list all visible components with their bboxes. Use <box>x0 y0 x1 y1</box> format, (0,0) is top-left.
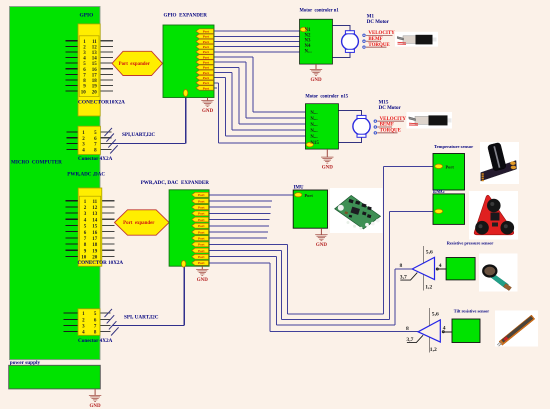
svg-text:17: 17 <box>92 73 98 78</box>
svg-text:PWR,ADC, DAC EXPANDER: PWR,ADC, DAC EXPANDER <box>141 180 210 186</box>
svg-text:Port: Port <box>305 193 314 198</box>
svg-text:Port: Port <box>198 236 205 240</box>
svg-text:15: 15 <box>92 225 98 230</box>
svg-text:16: 16 <box>92 68 98 73</box>
svg-text:18: 18 <box>92 243 98 248</box>
svg-text:15: 15 <box>92 62 98 67</box>
svg-text:N2: N2 <box>305 33 312 38</box>
svg-text:3,7: 3,7 <box>400 274 407 280</box>
svg-text:GPIO: GPIO <box>80 12 94 18</box>
svg-text:14: 14 <box>92 57 98 62</box>
svg-text:Port: Port <box>203 71 210 75</box>
svg-text:Port: Port <box>198 249 205 253</box>
svg-text:1,2: 1,2 <box>430 347 437 353</box>
svg-text:Conector 4X2A: Conector 4X2A <box>78 156 113 162</box>
svg-text:Port: Port <box>198 199 205 203</box>
svg-text:Port: Port <box>203 81 210 85</box>
svg-text:GND: GND <box>316 243 328 248</box>
svg-text:10: 10 <box>81 90 87 95</box>
svg-text:Temperature sensor: Temperature sensor <box>434 144 473 149</box>
svg-text:Port: Port <box>203 40 210 44</box>
svg-text:CONECTOR 10X2A: CONECTOR 10X2A <box>78 260 124 266</box>
svg-text:DC Motor: DC Motor <box>379 106 402 111</box>
svg-text:CONECTOR10X2A: CONECTOR10X2A <box>78 100 125 106</box>
svg-text:N...: N... <box>310 129 317 134</box>
svg-text:N15: N15 <box>310 141 319 146</box>
svg-text:19: 19 <box>92 249 98 254</box>
svg-text:Port: Port <box>203 60 210 64</box>
svg-text:11: 11 <box>92 200 97 205</box>
svg-text:SPI,UART,I2C: SPI,UART,I2C <box>122 132 155 138</box>
svg-text:Port: Port <box>203 30 210 34</box>
svg-text:N1: N1 <box>305 28 312 33</box>
svg-text:13: 13 <box>92 212 98 217</box>
svg-text:Port: Port <box>198 261 205 265</box>
svg-text:5,6: 5,6 <box>426 250 433 256</box>
svg-text:Tilt resistive sensor: Tilt resistive sensor <box>454 308 490 313</box>
svg-text:MICRO COMPUTER: MICRO COMPUTER <box>11 160 62 166</box>
svg-text:Port: Port <box>198 224 205 228</box>
svg-text:20: 20 <box>92 90 98 95</box>
svg-text:Port: Port <box>203 45 210 49</box>
svg-text:12: 12 <box>92 206 98 211</box>
svg-text:Port: Port <box>203 76 210 80</box>
svg-text:N...: N... <box>310 135 317 140</box>
svg-text:1,2: 1,2 <box>425 285 432 291</box>
svg-text:N...: N... <box>310 117 317 122</box>
svg-text:DC Motor: DC Motor <box>367 20 390 25</box>
svg-text:IMU: IMU <box>294 185 305 190</box>
svg-text:19: 19 <box>92 85 98 90</box>
svg-text:GND: GND <box>90 404 102 409</box>
svg-text:N3: N3 <box>305 39 312 44</box>
svg-text:EMG: EMG <box>433 190 445 195</box>
svg-text:GND: GND <box>322 166 334 171</box>
svg-text:Port: Port <box>446 164 455 169</box>
svg-text:Port: Port <box>203 86 210 90</box>
svg-text:14: 14 <box>92 218 98 223</box>
svg-text:N...: N... <box>310 123 317 128</box>
svg-text:Port: Port <box>198 218 205 222</box>
svg-text:Port: Port <box>203 35 210 39</box>
svg-text:N4: N4 <box>305 44 312 49</box>
svg-text:GND: GND <box>197 278 209 283</box>
svg-text:11: 11 <box>92 40 97 45</box>
svg-text:4: 4 <box>439 263 442 269</box>
svg-text:12: 12 <box>92 45 98 50</box>
svg-text:GND: GND <box>202 109 214 114</box>
svg-text:SPI, UART,I2C: SPI, UART,I2C <box>124 315 159 321</box>
svg-text:N...: N... <box>305 49 312 54</box>
svg-text:17: 17 <box>92 237 98 242</box>
svg-text:13: 13 <box>92 51 98 56</box>
svg-text:Port: Port <box>198 193 205 197</box>
svg-text:Port: Port <box>203 66 210 70</box>
svg-text:16: 16 <box>92 231 98 236</box>
svg-text:Port: Port <box>198 212 205 216</box>
svg-text:M15: M15 <box>379 100 389 105</box>
svg-text:PWR,ADC ,DAC: PWR,ADC ,DAC <box>67 172 105 178</box>
svg-text:Resistive pressure sensor: Resistive pressure sensor <box>447 241 494 246</box>
svg-text:Motor controler n15: Motor controler n15 <box>305 94 348 99</box>
svg-text:5,6: 5,6 <box>432 312 439 318</box>
svg-text:GND: GND <box>310 78 322 83</box>
svg-text:M1: M1 <box>367 15 375 20</box>
svg-text:N...: N... <box>310 111 317 116</box>
svg-text:Conector 4X2A: Conector 4X2A <box>78 338 113 344</box>
svg-text:Port expander: Port expander <box>123 221 155 226</box>
svg-text:Motor controler n1: Motor controler n1 <box>300 8 340 13</box>
svg-text:Port: Port <box>198 255 205 259</box>
svg-text:GPIO EXPANDER: GPIO EXPANDER <box>164 12 208 18</box>
svg-text:Port: Port <box>198 243 205 247</box>
svg-text:Port: Port <box>198 206 205 210</box>
svg-text:18: 18 <box>92 79 98 84</box>
svg-text:Port expander: Port expander <box>119 62 151 67</box>
svg-text:8: 8 <box>400 263 403 269</box>
svg-text:Port: Port <box>198 230 205 234</box>
svg-text:8: 8 <box>406 326 409 332</box>
svg-text:Port: Port <box>203 55 210 59</box>
svg-text:Port: Port <box>203 50 210 54</box>
